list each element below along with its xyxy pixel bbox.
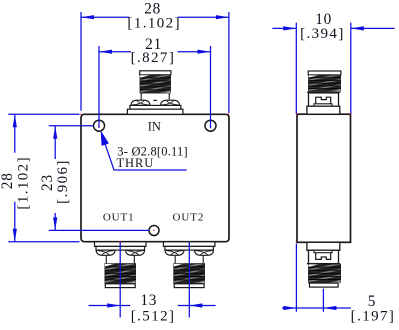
svg-text:OUT1: OUT1 [103, 212, 135, 224]
OUT1 narrow plate [96, 246, 145, 250]
SMA connector IN : threads [138, 74, 172, 97]
SMA connector IN : cap [140, 71, 171, 75]
OUT2 right nut dome [195, 250, 214, 255]
body front view [81, 114, 229, 241]
svg-text:OUT2: OUT2 [173, 212, 205, 224]
svg-text:23: 23 [39, 174, 56, 191]
SMA connector IN : center tick [153, 99, 157, 101]
dim 13 bottom : extension lines [120, 242, 189, 318]
dim 21 top : extension lines [99, 46, 211, 128]
arrow dim13 left(points right) [107, 303, 120, 307]
arrow dim23 up [53, 126, 57, 139]
leader line THRU [105, 143, 187, 170]
arrow dim13 right(points left) [189, 303, 202, 307]
OUT2 narrow plate [165, 246, 214, 250]
svg-text:5: 5 [368, 293, 376, 310]
svg-text:28: 28 [0, 172, 16, 189]
svg-text:[.827]: [.827] [131, 50, 176, 66]
dim 28 left : extension lines [8, 114, 79, 241]
body side view [297, 114, 351, 242]
dim 21 top : dimension line [99, 51, 211, 53]
dim 23 left : extension lines [49, 126, 149, 231]
leader arrowhead [101, 130, 109, 146]
side connector top : castle notch [316, 97, 331, 104]
arrow dim28top left [81, 15, 94, 19]
OUT1 right nut dome [126, 250, 145, 255]
svg-text:THRU: THRU [117, 156, 155, 170]
svg-text:[1.102]: [1.102] [127, 16, 181, 32]
hole bottom-center [149, 226, 159, 236]
side connector bottom : cap [310, 283, 339, 287]
OUT2 left nut dome [165, 250, 184, 255]
svg-text:[.512]: [.512] [131, 309, 176, 325]
OUT2 cap [174, 284, 204, 288]
svg-text:[.394]: [.394] [300, 26, 345, 42]
side connector bottom : castle notch [316, 253, 331, 260]
arrow dim21 left [99, 50, 112, 54]
dim 5 right : dimension line [282, 307, 351, 309]
dim 10 right : dimension line [272, 27, 394, 29]
svg-text:[.906]: [.906] [55, 159, 71, 204]
arrow dim23 down [53, 217, 57, 230]
SMA connector OUT1 [95, 242, 147, 289]
dim 10 right : extension lines [296, 23, 351, 114]
dim 23 left : dimension line [54, 126, 56, 231]
SMA connector IN : legs [141, 93, 169, 100]
side connector top : nut top line [307, 91, 340, 93]
arrow dim21 right [198, 50, 211, 54]
arrow dim5 left(points right) [283, 306, 296, 310]
svg-text:[.197]: [.197] [351, 309, 396, 325]
SMA connector IN : left nut dome [131, 100, 150, 105]
dim 5 right : extension lines [296, 244, 323, 312]
SMA connector IN : narrow plate [130, 105, 181, 109]
OUT2 legs [175, 256, 203, 264]
hole top-right [205, 120, 216, 131]
dim 28 left : dimension line [14, 114, 16, 241]
arrow dim10 right(points left) [351, 26, 364, 30]
side connector top : threads [307, 74, 343, 95]
SMA connector IN : wide plate [127, 109, 182, 114]
OUT1 legs [106, 256, 134, 264]
svg-text:[1.102]: [1.102] [15, 156, 31, 210]
arrow dim28left down [13, 229, 17, 242]
side connector bottom : threads [307, 263, 343, 287]
arrow dim28left up [13, 114, 17, 127]
hole top-left [94, 120, 105, 131]
side connector top : inner plate [314, 104, 332, 106]
SMA connector OUT2 [163, 242, 215, 289]
red endpoint dots [80, 113, 351, 242]
dim 13 bottom : dimension line [89, 305, 216, 307]
side connector bottom : inner plate [314, 250, 332, 252]
SMA connector IN : right nut dome [161, 100, 180, 105]
OUT1 left nut dome [96, 250, 115, 255]
svg-text:13: 13 [140, 292, 157, 309]
arrow dim5 right(points left) [323, 306, 336, 310]
arrow dim28top right [216, 15, 229, 19]
side connector top : nut body [309, 93, 339, 106]
arrow dim10 left(points right) [283, 26, 296, 30]
OUT2 threads [172, 263, 206, 289]
OUT1 wide plate [95, 242, 147, 247]
OUT1 cap [105, 284, 135, 288]
side connector bottom : nut bottom line [307, 263, 340, 265]
OUT2 wide plate [163, 242, 215, 247]
side connector bottom : nut body [309, 250, 339, 263]
svg-text:IN: IN [148, 120, 161, 134]
OUT1 threads [103, 263, 137, 289]
dim 28 top : dimension line [81, 16, 229, 18]
side connector bottom : flange [307, 242, 340, 250]
side connector top : cap [308, 71, 341, 75]
dim 28 top : extension lines [81, 12, 229, 113]
side connector top : flange [307, 106, 340, 114]
